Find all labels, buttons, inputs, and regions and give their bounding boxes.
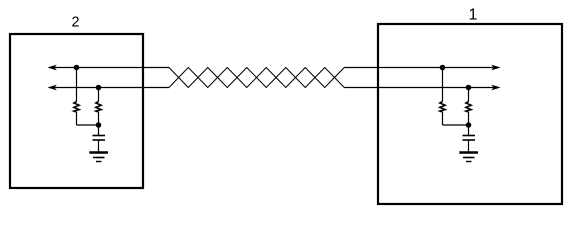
svg-text:2: 2 xyxy=(71,15,79,31)
svg-text:1: 1 xyxy=(469,7,478,24)
